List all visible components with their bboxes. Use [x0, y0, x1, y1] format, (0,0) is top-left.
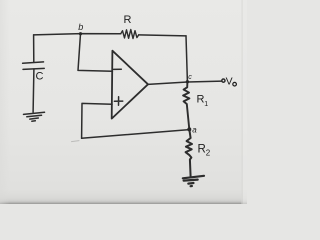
- op-amp plus sign: [114, 97, 122, 106]
- svg-text:a: a: [192, 125, 197, 134]
- resistor R1: [183, 82, 189, 129]
- svg-text:V: V: [226, 75, 233, 87]
- wire capacitor to ground: [32, 69, 35, 112]
- stray pencil smudge: [72, 141, 80, 142]
- op-amp minus sign: [114, 68, 122, 70]
- svg-text:c: c: [188, 74, 192, 81]
- capacitor C bottom plate: [23, 68, 44, 69]
- paper background: [0, 0, 247, 204]
- node b dot: [79, 32, 82, 35]
- node c dot: [186, 80, 189, 83]
- wire right vertical feedback to node c: [186, 36, 187, 82]
- svg-text:R: R: [124, 14, 132, 26]
- svg-text:C: C: [36, 71, 44, 83]
- terminal ring Vo: [222, 79, 225, 82]
- wire output (apex to Vo terminal): [148, 81, 222, 84]
- resistor R: [121, 30, 139, 39]
- svg-text:b: b: [78, 22, 83, 32]
- wire feedback bottom (node a to + loop): [82, 130, 190, 139]
- wire non-inverting input loop: [82, 103, 112, 138]
- svg-text:R: R: [197, 93, 205, 105]
- wire top right segment: [139, 35, 186, 36]
- node a dot: [187, 127, 191, 131]
- wire top horizontal (node b to resistor, corner at left): [34, 34, 121, 35]
- ground (right): [183, 176, 204, 186]
- svg-text:2: 2: [206, 149, 211, 158]
- svg-text:R: R: [198, 144, 206, 156]
- capacitor C top plate: [23, 62, 44, 63]
- op-amp U1 triangle: [112, 51, 148, 119]
- wire left vertical to capacitor: [33, 35, 35, 63]
- svg-text:1: 1: [204, 101, 208, 108]
- ground (left): [24, 112, 45, 121]
- resistor R2: [186, 129, 192, 176]
- wire node b down to inverting input: [78, 34, 112, 72]
